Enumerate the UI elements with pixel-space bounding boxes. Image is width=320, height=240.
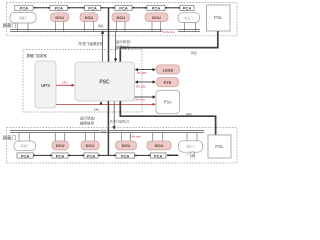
svg-text:网络: 网络 <box>98 24 104 28</box>
PCA box 3 top <box>85 5 101 10</box>
svg-text:网络: 网络 <box>186 111 192 116</box>
wire PSC to PTE (double arrow) <box>135 80 156 83</box>
PCA box 5 top <box>147 5 165 10</box>
wire network PSL-top to PSC (thick) <box>120 31 218 62</box>
svg-text:DCU: DCU <box>56 143 65 148</box>
wire network trunk PSC to bottom band (thick) <box>107 101 109 155</box>
DCU box top col5 <box>145 13 168 22</box>
wire PCA chain top segment 4 <box>132 7 147 9</box>
svg-text:PCA: PCA <box>154 153 163 158</box>
wire status line up to top band (thin, up arrow) <box>101 30 104 62</box>
wire PCA chain bottom segment 3 (with network tap) <box>98 154 116 156</box>
svg-text:故障信号: 故障信号 <box>116 45 130 50</box>
door legs top col6 <box>185 23 196 32</box>
end door unit top-right <box>178 13 200 23</box>
svg-text:开/关门/锁紧信号: 开/关门/锁紧信号 <box>78 41 104 46</box>
door legs bottom col2 <box>56 133 65 141</box>
label CAN-bus (top band, red) <box>163 30 179 34</box>
PSA box <box>156 90 180 113</box>
wire command line down into PSC (thin, down arrow) <box>114 31 117 62</box>
wire network PSC to PSL-bottom (thick) <box>120 101 215 135</box>
door legs bottom col4 <box>122 133 131 141</box>
svg-text:PCA: PCA <box>87 153 96 158</box>
net label 网络 (bottom middle) <box>101 129 107 133</box>
emergency door unit top-left <box>10 13 36 24</box>
svg-text:24V: 24V <box>62 80 67 84</box>
wire PCA chain top segment 2 <box>67 7 84 9</box>
end door unit bottom-right <box>179 141 203 152</box>
PCA box 3 bottom <box>84 153 98 158</box>
svg-text:PCA: PCA <box>121 153 130 158</box>
svg-text:屏蔽门控制室: 屏蔽门控制室 <box>27 53 48 58</box>
wire command line PSC down (thin, down arrow) <box>113 101 116 130</box>
svg-text:UPS: UPS <box>41 83 50 88</box>
door legs bottom col6 <box>187 133 197 141</box>
LESS box <box>157 65 180 74</box>
PSC controller <box>75 62 135 101</box>
svg-text:RS-485: RS-485 <box>137 71 147 75</box>
svg-text:网络: 网络 <box>101 129 107 133</box>
door legs bottom col5 <box>153 133 163 141</box>
bottom platform dashed enclosure <box>7 128 238 163</box>
PCA box 2 bottom <box>52 153 68 158</box>
PCA box 2 top <box>50 5 68 10</box>
workstation icon bottom-right <box>186 152 196 158</box>
wire 24V UPS to PSC (red arrow) <box>56 84 75 87</box>
wire PCA chain top segment 1 <box>33 7 50 9</box>
svg-text:PCA: PCA <box>119 6 128 11</box>
svg-text:CAN-bus: CAN-bus <box>163 30 175 34</box>
DCU box top col2 <box>51 13 69 22</box>
svg-text:PCA: PCA <box>21 153 30 158</box>
wire PCA chain top segment 3 (with network tap) <box>100 7 115 9</box>
svg-text:RS-232: RS-232 <box>136 84 146 88</box>
svg-text:24V: 24V <box>94 108 99 112</box>
svg-text:DCU: DCU <box>85 15 94 20</box>
door legs bottom col3 <box>86 133 95 141</box>
svg-text:网络: 网络 <box>191 50 197 55</box>
svg-text:端头门: 端头门 <box>186 144 194 148</box>
label CAN-bus (bottom band, red) <box>129 134 145 138</box>
svg-text:PSL: PSL <box>214 15 223 20</box>
PCA box 1 top <box>15 5 33 10</box>
svg-text:屏蔽门: 屏蔽门 <box>3 135 17 142</box>
UPS U1 <box>35 61 56 108</box>
PSL box top <box>207 5 231 31</box>
svg-text:DCU: DCU <box>152 15 161 20</box>
wire network trunk top band to PSC (thick) <box>108 8 110 62</box>
svg-text:DCU: DCU <box>155 143 164 148</box>
svg-text:运行状态/: 运行状态/ <box>80 116 95 121</box>
net label 网络 (top middle) <box>98 24 104 28</box>
svg-text:PCA: PCA <box>152 6 161 11</box>
svg-text:A: A <box>192 153 194 157</box>
PTE box <box>157 78 179 87</box>
svg-text:疏散门: 疏散门 <box>19 16 27 20</box>
wire PCA chain bottom segment 1 <box>33 154 52 156</box>
svg-text:疏散门: 疏散门 <box>21 144 29 148</box>
DCU box bottom col3 <box>81 141 99 150</box>
wire PCA chain bottom segment 5 (to end station) <box>167 154 179 156</box>
top platform rail double line <box>10 30 200 32</box>
svg-text:CAN-bus: CAN-bus <box>134 98 146 102</box>
door legs bottom col1 <box>19 133 30 141</box>
svg-text:LESS: LESS <box>163 67 174 72</box>
DCU box bottom col5 <box>147 141 171 150</box>
svg-text:开/关门/锁紧信号: 开/关门/锁紧信号 <box>110 119 130 123</box>
door legs top col3 <box>85 22 94 32</box>
svg-text:DCU: DCU <box>122 143 131 148</box>
svg-text:PCA: PCA <box>20 6 29 11</box>
door legs top col1 <box>17 23 28 31</box>
svg-text:PCA: PCA <box>55 6 64 11</box>
wire 24V branch into PSC bottom (black, up arrow) <box>99 101 102 104</box>
wire PCA chain bottom segment 2 <box>68 154 84 156</box>
DCU box top col3 <box>80 13 98 22</box>
DCU box bottom col2 <box>52 141 69 150</box>
svg-text:PCA: PCA <box>56 153 65 158</box>
top platform dashed enclosure <box>7 3 238 36</box>
svg-text:PSA: PSA <box>164 100 173 105</box>
PCA box 4 bottom <box>116 153 135 158</box>
PCA box 4 top <box>115 5 132 10</box>
svg-text:运行状态/: 运行状态/ <box>116 39 131 44</box>
wire PSC to LESS (double arrow) <box>135 68 156 71</box>
svg-text:DCU: DCU <box>55 15 64 20</box>
svg-text:PTE: PTE <box>164 80 172 85</box>
wire 24V power bus from UPS (red) <box>56 103 156 106</box>
PCA box 5 bottom <box>151 153 167 158</box>
DCU box bottom col4 <box>116 141 137 150</box>
PCA box 1 bottom <box>17 153 33 158</box>
door legs top col4 <box>117 22 126 32</box>
svg-text:DCU: DCU <box>116 15 125 20</box>
svg-text:PSC: PSC <box>99 79 110 85</box>
DCU box top col4 <box>112 13 130 22</box>
svg-text:故障信号: 故障信号 <box>80 120 94 125</box>
svg-text:端头门: 端头门 <box>185 16 193 20</box>
wire PCA chain top segment 5 <box>165 7 180 9</box>
svg-text:PSL: PSL <box>215 144 224 149</box>
wire PCA chain bottom segment 4 <box>134 154 150 156</box>
PCA box 6 top <box>180 5 194 10</box>
svg-text:PCA: PCA <box>183 6 192 11</box>
PSL box bottom <box>208 135 231 158</box>
wire PSC to PSA (arrow) <box>135 95 156 98</box>
svg-text:PCA: PCA <box>88 6 97 11</box>
svg-text:DCU: DCU <box>86 143 95 148</box>
emergency door unit bottom-left <box>14 141 36 151</box>
bottom platform rail double line <box>10 131 204 133</box>
door legs top col5 <box>152 22 161 32</box>
door legs top col2 <box>56 22 64 32</box>
control room dashed enclosure <box>23 50 142 113</box>
